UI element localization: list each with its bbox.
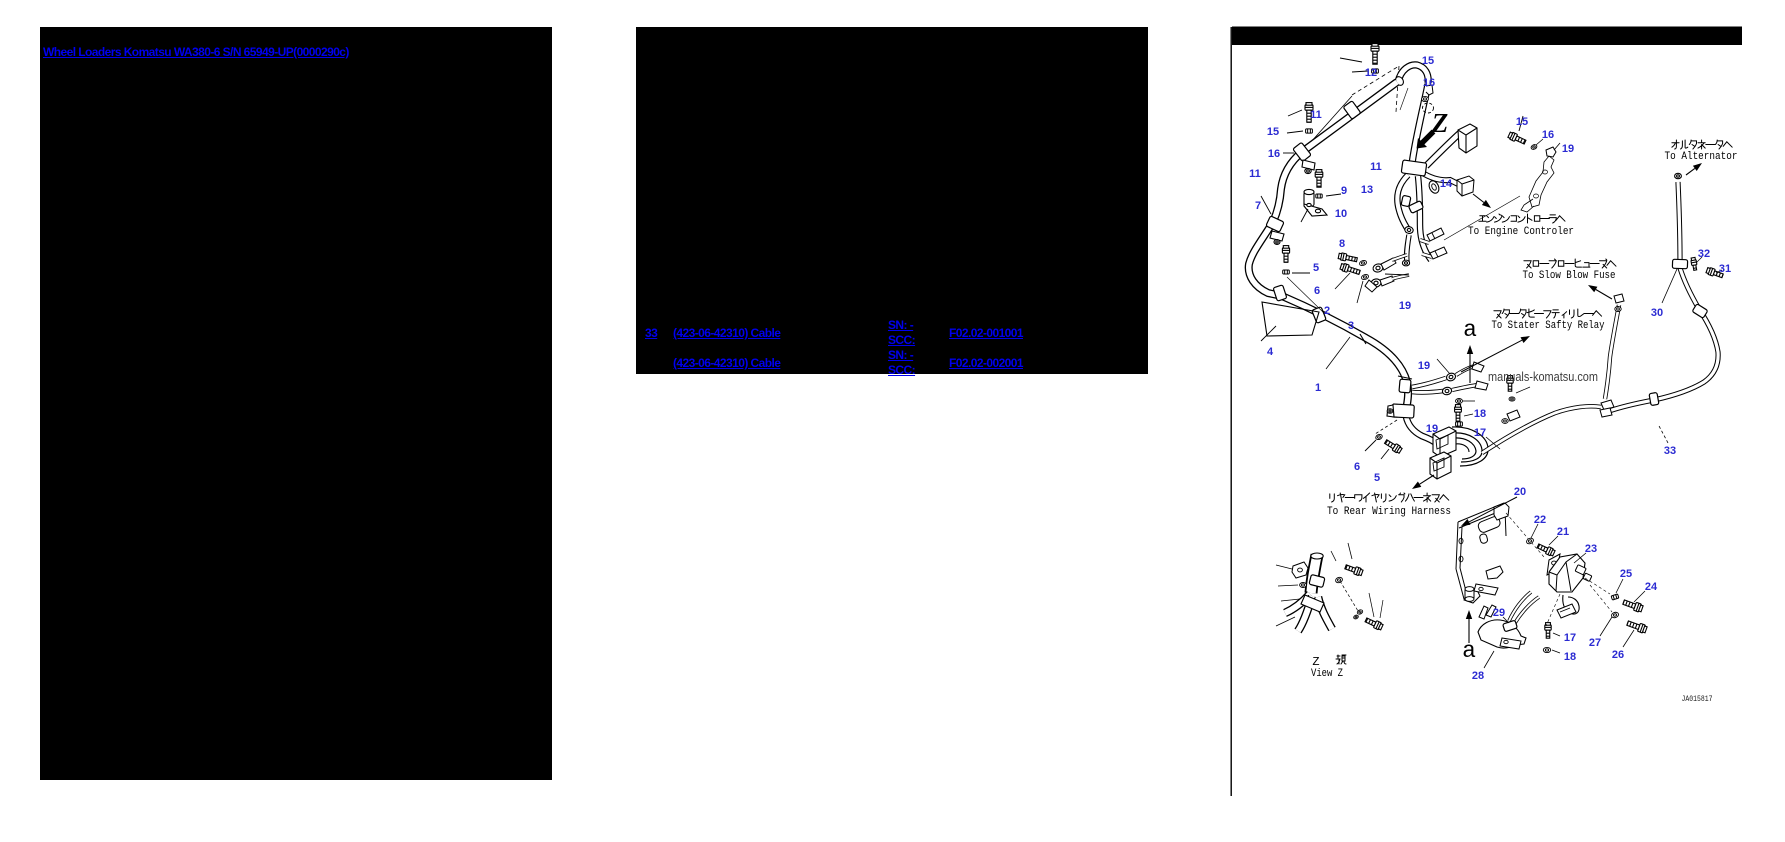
engine connector big 14-upper <box>1458 124 1477 153</box>
view-Z left flat tube <box>1285 594 1310 613</box>
arrow to rear wiring harness <box>1420 475 1434 484</box>
dashed relay to nut25 <box>1585 578 1610 594</box>
engine bracket ghost outline <box>1529 156 1554 207</box>
leader to nut 15 <box>1287 131 1303 133</box>
cable 33 big curve <box>1609 268 1718 411</box>
svg-text:6: 6 <box>1354 461 1360 473</box>
viewZ leader 4 <box>1276 617 1295 626</box>
JP to-engine-controller <box>1479 216 1486 221</box>
relay wire eyelet <box>1615 307 1621 312</box>
leader 25 <box>1616 579 1623 593</box>
arrow to alternator <box>1686 168 1695 175</box>
eyelet on left branch <box>1404 226 1413 234</box>
sleeve band A on branch <box>1401 195 1411 206</box>
wire from 19b right <box>1392 275 1409 279</box>
svg-text:16: 16 <box>1542 129 1554 141</box>
svg-text:26: 26 <box>1612 649 1624 661</box>
cable33 tip terminal 2 <box>1600 408 1612 417</box>
leader for 4 <box>1261 326 1276 341</box>
leader 30 <box>1662 269 1677 303</box>
washer 18 bottom <box>1543 647 1550 652</box>
svg-text:21: 21 <box>1557 526 1569 538</box>
svg-text:25: 25 <box>1620 568 1632 580</box>
svg-text:33: 33 <box>1664 445 1676 457</box>
wire to starter relay junction <box>1482 406 1601 453</box>
svg-text:14: 14 <box>1440 178 1453 190</box>
bolt 8b <box>1340 263 1361 276</box>
svg-text:9: 9 <box>1341 185 1347 197</box>
JP to-alternator <box>1672 140 1679 149</box>
loop end cap <box>1394 75 1405 87</box>
svg-text:18: 18 <box>1474 408 1486 420</box>
clamp on alternator wire <box>1672 259 1687 269</box>
big clamp at junction <box>1392 404 1415 418</box>
bolt 15 right <box>1508 131 1527 145</box>
leader 2-cluster <box>1357 281 1363 303</box>
male terminal A <box>1472 362 1484 372</box>
viewZ top bracket <box>1292 562 1308 578</box>
svg-text:28: 28 <box>1472 670 1484 682</box>
part 28 plate <box>1500 638 1521 649</box>
thin leader to bracket ghost <box>1444 196 1520 240</box>
svg-text:1: 1 <box>1315 382 1321 394</box>
viewZ leader right2 <box>1380 600 1383 618</box>
thin line along tube <box>1302 96 1352 152</box>
bolt 31 <box>1706 267 1724 279</box>
leader 26 <box>1623 630 1634 647</box>
leader 10 <box>1301 209 1308 222</box>
band mark on cable 2 <box>1398 376 1412 379</box>
clamp 16 tab hole <box>1305 168 1311 173</box>
leader 18 <box>1464 414 1473 416</box>
relay 23 mounting tab <box>1547 554 1560 575</box>
relay 23 facets <box>1549 554 1577 591</box>
svg-text:19: 19 <box>1399 300 1411 312</box>
row1 SN <box>888 318 915 347</box>
leader 31 <box>1716 270 1722 273</box>
stud on bracket <box>1465 587 1474 602</box>
dashed line clamp to washer6 <box>1375 420 1397 434</box>
junction clamp tab <box>1387 405 1394 417</box>
washer 16 right <box>1530 144 1537 151</box>
dashed relay to bolt17 <box>1546 594 1560 626</box>
relay on bracket <box>1477 503 1509 544</box>
clamp 7 tab <box>1270 231 1284 241</box>
svg-text:a: a <box>1462 638 1476 664</box>
bolt 32 <box>1691 257 1698 270</box>
svg-text:13: 13 <box>1361 184 1373 196</box>
svg-text:JA015817: JA015817 <box>1682 695 1713 704</box>
svg-text:18: 18 <box>1564 651 1576 663</box>
junction clamp tab hole <box>1387 409 1393 413</box>
svg-text:17: 17 <box>1564 632 1576 644</box>
svg-text:22: 22 <box>1534 514 1546 526</box>
svg-text:11: 11 <box>1370 161 1382 173</box>
leader 7 <box>1261 196 1271 214</box>
leader 28 <box>1484 651 1494 668</box>
viewZ leader top2 <box>1348 543 1352 559</box>
main diagonal tube <box>1302 82 1397 152</box>
wire harness top loop <box>1398 65 1428 83</box>
clamp 7 <box>1266 216 1284 232</box>
row1 part link <box>673 326 780 341</box>
bolt 5 left <box>1282 246 1289 263</box>
left harness curve part 11 <box>1249 152 1302 296</box>
bolt 26 <box>1626 619 1647 634</box>
grommet oval <box>1427 179 1441 195</box>
terminal 19a tab <box>1381 258 1396 270</box>
relay wire top terminal <box>1614 294 1624 303</box>
svg-text:11: 11 <box>1310 109 1322 121</box>
wire eyeletB to terminal <box>1452 385 1478 390</box>
wire eyeletA to terminal <box>1456 366 1475 375</box>
part 10 bracket <box>1304 189 1327 216</box>
dashed circle <box>1423 103 1434 113</box>
left branch below clamp <box>1397 175 1409 232</box>
svg-text:17: 17 <box>1474 427 1486 439</box>
nut 25 <box>1611 594 1619 600</box>
leader 17 bottom <box>1553 633 1560 636</box>
flag terminal on wire <box>1507 410 1520 421</box>
arrow a lower <box>1468 619 1470 643</box>
washer near 8a <box>1359 260 1367 267</box>
fan leader 1 <box>1400 88 1408 110</box>
bolt 18 head bottom <box>1456 422 1463 426</box>
nut below bolt 9 <box>1316 194 1322 198</box>
connector stack lower detail <box>1433 458 1444 471</box>
bolt 24 <box>1622 598 1643 613</box>
bolt 8a <box>1338 252 1358 263</box>
svg-text:12: 12 <box>1365 67 1377 79</box>
arrow to slow blow fuse <box>1596 290 1612 300</box>
clamp on cable 33 lower <box>1649 392 1659 405</box>
thin leader nut to clamp2 <box>1287 277 1325 314</box>
washer 12 <box>1372 69 1379 73</box>
viewZ dashed line <box>1340 581 1358 611</box>
svg-text:19: 19 <box>1562 143 1574 155</box>
svg-text:To Rear Wiring Harness: To Rear Wiring Harness <box>1327 506 1451 518</box>
dashed bracket to relay <box>1506 513 1544 557</box>
svg-text:Z: Z <box>1312 655 1319 669</box>
leader 17 <box>1486 437 1500 449</box>
viewZ leader right1 <box>1369 593 1374 617</box>
band mark on cable <box>1360 334 1366 344</box>
bracket hook piece <box>1486 566 1503 579</box>
leader to bolt 11 <box>1288 110 1302 116</box>
clamp 16 tab <box>1302 160 1315 170</box>
leader 32 <box>1696 257 1702 263</box>
swoosh wire bundle innermost <box>1455 444 1469 452</box>
connector stack upper 19 <box>1433 427 1456 457</box>
bolt near watermark <box>1507 376 1513 392</box>
svg-text:To Engine Controler: To Engine Controler <box>1468 226 1574 238</box>
viewZ bolt top-right <box>1344 563 1363 576</box>
svg-text:30: 30 <box>1651 307 1663 319</box>
leader arrow 20 <box>1469 497 1517 522</box>
svg-text:7: 7 <box>1255 200 1261 212</box>
pin terminal 28a <box>1479 606 1488 619</box>
leader 5 center <box>1381 449 1389 459</box>
bolt 11 <box>1305 103 1313 123</box>
bullet terminal pair 1 <box>1427 228 1444 241</box>
relay 23 body <box>1549 554 1585 592</box>
leader to bolt 12 <box>1340 58 1362 62</box>
leader 27 <box>1600 617 1612 636</box>
svg-text:View Z: View Z <box>1311 668 1343 680</box>
connector 14 <box>1457 176 1474 196</box>
cable33 tip terminal 1 <box>1601 400 1614 410</box>
leader from bolt <box>1516 387 1530 393</box>
alternator wire top terminal <box>1675 173 1682 178</box>
svg-text:a: a <box>1463 317 1477 343</box>
row2 fig link <box>949 356 1023 371</box>
bolt 18 center <box>1455 405 1462 422</box>
vertical tube from loop <box>1412 84 1428 164</box>
svg-text:24: 24 <box>1645 581 1658 593</box>
relay wire loop <box>1563 595 1579 614</box>
title link <box>43 45 349 60</box>
big clamp below loop <box>1401 160 1427 176</box>
viewZ leader 1 <box>1276 565 1292 569</box>
svg-text:27: 27 <box>1589 637 1601 649</box>
JP to-slow-blow-fuse <box>1524 261 1531 268</box>
view-Z lower-left tube <box>1298 596 1312 631</box>
JP to-starter-relay <box>1494 311 1501 318</box>
svg-text:3: 3 <box>1348 320 1354 332</box>
arrow to starter safety relay <box>1461 340 1522 372</box>
leader 15 right <box>1519 116 1523 131</box>
band clamp near junction <box>1399 379 1411 393</box>
small washer under loop <box>1422 96 1429 101</box>
arrow a upper <box>1469 354 1471 383</box>
bullet terminal pair 2 <box>1430 247 1447 259</box>
bracket 20 plate <box>1456 503 1506 602</box>
branch tube to engine connector <box>1426 133 1460 166</box>
leader 18 bottom <box>1552 650 1560 653</box>
washer 6 center <box>1375 433 1383 440</box>
bolt 9 <box>1315 170 1323 188</box>
svg-text:16: 16 <box>1423 77 1435 89</box>
svg-text:32: 32 <box>1698 248 1710 260</box>
leader 23 <box>1574 553 1586 563</box>
pin terminal 28b <box>1486 605 1496 617</box>
leader 16 <box>1283 152 1294 154</box>
leader 29 <box>1503 617 1509 623</box>
clamp lower-left <box>1273 285 1287 301</box>
small eyelet lower <box>1402 260 1409 266</box>
view-Z main stub tube <box>1311 555 1317 593</box>
svg-text:5: 5 <box>1313 262 1319 274</box>
middle black panel <box>636 27 1148 374</box>
row2 part link <box>673 356 780 371</box>
middle branch tube <box>1418 176 1431 260</box>
clamp 2 <box>1312 307 1327 324</box>
alternator wire upper <box>1678 182 1680 261</box>
svg-text:23: 23 <box>1585 543 1597 555</box>
branch wire to eyelet A <box>1412 378 1446 387</box>
washer near watermark <box>1509 397 1515 401</box>
projection dashed line 2 <box>1396 66 1399 112</box>
sleeve band B on branch <box>1408 201 1423 214</box>
flag terminal eyelet <box>1502 419 1508 424</box>
leader washer18 <box>1463 400 1475 402</box>
bolt 21 <box>1536 542 1555 556</box>
top black bar <box>1232 27 1742 46</box>
leader 16 right <box>1536 139 1543 145</box>
clamp 7 tab hole <box>1274 240 1280 245</box>
relay connector below <box>1557 604 1576 618</box>
washer 18 center <box>1456 399 1463 404</box>
relay wire thin <box>1605 305 1619 399</box>
washer 22 <box>1526 537 1535 545</box>
svg-text:6: 6 <box>1314 285 1320 297</box>
wire 28 to relay a <box>1509 592 1531 621</box>
washer near 8b <box>1361 274 1369 281</box>
nut 6 left <box>1283 270 1290 274</box>
ring terminal 19a <box>1372 263 1384 273</box>
connector stack lower 19 <box>1430 452 1451 479</box>
tube into connector stack <box>1406 416 1437 444</box>
bracket flange piece <box>1474 584 1498 595</box>
leader 19 junction <box>1437 359 1450 374</box>
svg-text:10: 10 <box>1335 208 1347 220</box>
svg-text:Z: Z <box>1431 108 1449 138</box>
wire 28 to relay b <box>1515 597 1539 623</box>
stub to bullet terminal 1 <box>1420 240 1429 243</box>
row1 fig link <box>949 326 1023 341</box>
clip 19 right <box>1546 147 1556 157</box>
clip 16 under loop <box>1426 85 1433 95</box>
svg-text:15: 15 <box>1516 116 1528 128</box>
bolt 17 bottom <box>1545 623 1551 639</box>
part 28 bracket <box>1478 620 1526 648</box>
clamp on diagonal tube <box>1343 101 1361 120</box>
swoosh wire bundle mid <box>1453 433 1482 462</box>
bolt 12 <box>1371 44 1379 65</box>
viewZ washer left <box>1300 583 1307 588</box>
eyelet A at junction <box>1445 372 1456 382</box>
main cable part 1 <box>1282 296 1408 410</box>
svg-text:20: 20 <box>1514 486 1526 498</box>
left branch lower stub <box>1407 235 1409 262</box>
viewZ small washer 2 <box>1353 614 1359 619</box>
leader 6 center <box>1365 440 1376 451</box>
bolt 5 center <box>1384 438 1403 454</box>
svg-text:manuals-komatsu.com: manuals-komatsu.com <box>1488 369 1598 384</box>
view-Z lower-right tube <box>1318 597 1332 629</box>
clamp 29 <box>1503 620 1518 632</box>
leader 6-cluster <box>1335 273 1350 289</box>
row2 SN <box>888 348 915 377</box>
svg-text:16: 16 <box>1268 148 1280 160</box>
leader from eyelets right <box>1385 274 1409 275</box>
leader 24 <box>1634 591 1645 602</box>
view-Z diagonal band <box>1301 595 1324 612</box>
leader 5 <box>1292 272 1310 274</box>
leader 22 <box>1531 524 1538 538</box>
engine bracket ghost lower tab <box>1521 199 1534 212</box>
big Z arrow <box>1417 130 1436 149</box>
leader to washer 12 <box>1352 71 1368 72</box>
svg-text:19: 19 <box>1426 423 1438 435</box>
JP to-rear-harness <box>1330 494 1335 502</box>
clamp on cable 33 upper <box>1692 304 1708 319</box>
svg-text:19: 19 <box>1418 360 1430 372</box>
swoosh wire bundle inner <box>1453 438 1476 459</box>
svg-text:To Slow Blow Fuse: To Slow Blow Fuse <box>1523 270 1616 282</box>
bracket 20 bottom flange <box>1464 588 1480 603</box>
row1 item number <box>645 326 657 341</box>
small flag terminal <box>1365 280 1377 292</box>
stub to bullet terminal 2 <box>1422 254 1432 257</box>
terminal 19b tab <box>1380 276 1394 286</box>
arrow to engine controller <box>1473 194 1484 203</box>
male terminal B <box>1475 381 1488 390</box>
view-Z clamp band <box>1309 574 1325 587</box>
swoosh wire bundle outer <box>1452 427 1488 466</box>
svg-text:11: 11 <box>1249 168 1261 180</box>
viewZ leader 2 <box>1278 585 1298 586</box>
svg-text:15: 15 <box>1422 55 1434 67</box>
nut 15 left <box>1306 129 1313 133</box>
svg-text:29: 29 <box>1493 607 1505 619</box>
eyelet B at junction <box>1442 386 1453 395</box>
dashed relay to washer27 <box>1590 585 1612 612</box>
svg-text:To Stater Safty Relay: To Stater Safty Relay <box>1492 320 1605 332</box>
svg-text:31: 31 <box>1719 263 1731 275</box>
connector stack upper detail <box>1436 435 1448 449</box>
svg-text:2: 2 <box>1324 305 1330 317</box>
leader 21 <box>1549 536 1558 545</box>
branch wire to eyelet B <box>1412 391 1443 392</box>
viewZ washer mid <box>1335 576 1343 583</box>
sleeve cover part 4 <box>1262 302 1319 336</box>
svg-text:8: 8 <box>1339 238 1345 250</box>
projection dashed line <box>1352 66 1399 95</box>
viewZ leader 3 <box>1281 599 1300 601</box>
leader 19 right <box>1554 143 1560 150</box>
svg-text:To Alternator: To Alternator <box>1665 151 1738 163</box>
wire from 19a up-right <box>1392 255 1407 260</box>
leader 33 dashed <box>1658 424 1668 443</box>
leader 9 <box>1326 194 1341 196</box>
clamp 16 on tube <box>1293 142 1312 161</box>
svg-text:4: 4 <box>1267 346 1274 358</box>
branch wire to connector 14 <box>1421 172 1458 184</box>
svg-text:5: 5 <box>1374 472 1380 484</box>
ring terminal 19b <box>1370 278 1381 288</box>
right panel border line <box>1231 27 1232 796</box>
svg-text:15: 15 <box>1267 126 1279 138</box>
left black panel <box>40 27 552 780</box>
leader 1 <box>1326 337 1350 369</box>
viewZ bolt bottom-right <box>1364 616 1383 630</box>
viewZ leader top1 <box>1331 551 1336 561</box>
viewZ small washer 1 <box>1357 609 1364 615</box>
washer 27 <box>1611 611 1620 618</box>
